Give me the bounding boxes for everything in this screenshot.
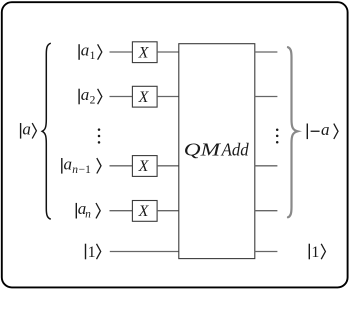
output stub row n-1 <box>255 165 278 167</box>
label ket |a2> <box>78 85 101 107</box>
label ket |a> <box>20 119 37 138</box>
X gate row 1 <box>132 42 157 63</box>
vertical dots left column <box>98 128 101 143</box>
svg-text:X: X <box>138 203 150 220</box>
output stub row 1 <box>255 51 278 53</box>
label ket |1> left <box>85 244 101 261</box>
wire a_n to X gate <box>110 210 133 212</box>
svg-text:a: a <box>81 85 90 104</box>
svg-text:a: a <box>22 119 31 138</box>
wire X1 to QMAdd <box>157 51 179 53</box>
right brace } <box>288 47 298 217</box>
svg-text:2: 2 <box>90 95 96 107</box>
svg-text:X: X <box>138 158 150 175</box>
X gate row 2 <box>132 86 157 107</box>
svg-text:QM: QM <box>184 140 222 160</box>
svg-text:−1: −1 <box>79 164 91 176</box>
output stub row n <box>255 210 278 212</box>
QMAdd box U1 <box>179 44 255 259</box>
svg-text:X: X <box>138 44 150 61</box>
wire |1> to QMAdd <box>110 251 179 253</box>
wire a2 to X gate <box>110 96 133 98</box>
svg-text:1: 1 <box>311 244 319 261</box>
svg-text:a: a <box>321 120 330 139</box>
wire a_{n-1} to X gate <box>110 165 133 167</box>
svg-text:1: 1 <box>90 50 96 62</box>
X gate row n-1 <box>132 156 157 177</box>
svg-text:X: X <box>138 89 150 106</box>
wire X(n-1) to QMAdd <box>157 165 179 167</box>
X gate row n <box>132 201 157 222</box>
output stub |1> row <box>255 251 278 253</box>
label ket |1> right <box>309 244 326 261</box>
svg-text:a: a <box>81 41 90 60</box>
label ket |a1> <box>78 41 101 63</box>
label ket |-a> <box>307 120 338 139</box>
output stub row 2 <box>255 96 278 98</box>
svg-text:n: n <box>72 164 78 176</box>
svg-text:Add: Add <box>221 140 250 160</box>
wire X2 to QMAdd <box>157 96 179 98</box>
wire a1 to X gate <box>110 51 133 53</box>
svg-text:a: a <box>64 154 73 173</box>
svg-text:n: n <box>85 209 91 221</box>
label ket |a_n> <box>76 199 101 221</box>
left brace { <box>42 43 51 219</box>
svg-text:1: 1 <box>88 244 96 261</box>
label ket |a_{n-1}> <box>61 154 101 176</box>
wire Xn to QMAdd <box>157 210 179 212</box>
vertical dots right column <box>276 129 279 144</box>
